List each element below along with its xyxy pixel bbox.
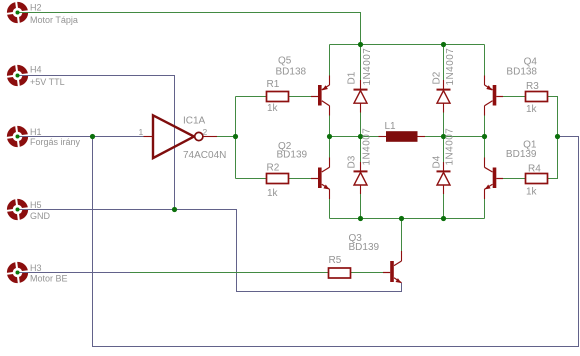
wire Q1 emitter to bottom rail: [484, 189, 486, 218]
svg-text:L1: L1: [385, 121, 397, 132]
wire to R1 left: [236, 96, 267, 98]
pin 2 of IC1A: [203, 136, 217, 138]
svg-text:Forgás irány: Forgás irány: [30, 137, 81, 147]
transistor Q3 BD139 NPN: [383, 261, 402, 283]
pad center H3: [16, 271, 20, 275]
wire Q5 emitter drop: [329, 45, 331, 86]
wire net Motor Tapja: H2 to top rail: [18, 13, 361, 45]
resistor R4: [526, 174, 548, 184]
wire Q4 emitter drop: [484, 45, 486, 86]
wire net +5V TTL: H4 right then down to GND line: [18, 76, 175, 210]
diode D4 1N4007: [437, 171, 451, 185]
svg-text:D4: D4: [432, 155, 443, 168]
junction node at H1 branch: [90, 134, 95, 139]
svg-text:BD138: BD138: [276, 67, 307, 78]
svg-text:R4: R4: [528, 164, 541, 175]
svg-text:1k: 1k: [267, 103, 279, 114]
pin 1 of IC1A: [144, 136, 154, 138]
pin stubs Q4: [484, 76, 486, 116]
wire Q5 collector to mid rail: [329, 106, 331, 137]
junction node mid rail Q5/Q2: [327, 134, 332, 139]
resistor R2: [267, 174, 289, 184]
resistor R3: [526, 92, 548, 102]
wire D4 bottom to bottom rail: [443, 185, 445, 219]
wire D3 bottom to bottom rail: [360, 185, 362, 219]
diode D3 1N4007: [354, 171, 368, 185]
pad center H4: [16, 74, 20, 78]
svg-text:H1: H1: [30, 127, 42, 137]
svg-text:H2: H2: [30, 3, 42, 13]
wire Forgas irany branch: down, along bottom, up right side to R3/R4: [93, 137, 579, 347]
junction node at +5V/GND: [172, 207, 177, 212]
svg-text:IC1A: IC1A: [183, 116, 206, 127]
pin stub Q3 collector: [401, 251, 403, 261]
wire R4 left to Q1 base: [503, 178, 526, 180]
wire Q1 collector to mid rail: [484, 137, 486, 168]
connector pad H5: [4, 196, 30, 222]
svg-text:1N4007: 1N4007: [445, 48, 456, 86]
svg-text:D3: D3: [347, 155, 358, 168]
wire R3 left to Q4 base: [503, 96, 526, 98]
wire D1 bottom to mid rail: [360, 103, 362, 137]
svg-text:R2: R2: [267, 163, 280, 174]
transistor Q2 BD139 NPN: [311, 167, 330, 189]
transistor Q5 BD138 PNP: [311, 85, 330, 106]
wire inverter output to R1/R2: [217, 136, 236, 138]
svg-text:R5: R5: [329, 255, 342, 266]
wire top rail: [330, 44, 485, 46]
wire R3/R4 node to right rail: [558, 136, 579, 138]
diode D1 1N4007: [354, 90, 368, 104]
wire bottom rail: [330, 218, 485, 220]
junction node R3/R4: [555, 134, 560, 139]
svg-text:GND: GND: [30, 211, 51, 221]
wire R1 right to Q5 base: [289, 96, 312, 98]
pin stubs D2: [443, 80, 445, 113]
junction node bottom rail D4: [441, 216, 446, 221]
wire to R2 left: [236, 178, 267, 180]
pin stubs D3: [360, 162, 362, 194]
junction node mid rail D1/D3: [358, 134, 363, 139]
wire R5 right to Q3 base: [351, 272, 384, 274]
wire Q2 collector to mid rail: [329, 137, 331, 168]
svg-text:Q5: Q5: [278, 56, 292, 67]
pin stubs D4: [443, 162, 445, 194]
svg-text:+5V TTL: +5V TTL: [30, 77, 65, 87]
svg-text:BD139: BD139: [506, 149, 537, 160]
wire Q2 emitter to bottom rail: [329, 189, 331, 218]
junction node mid rail Q4/Q1: [482, 134, 487, 139]
wire net Forgas irany: H1 to inverter input: [18, 136, 145, 138]
wire D1 top: [360, 45, 362, 90]
inductor L1 motor: [386, 131, 418, 142]
wire mid rail: [330, 136, 485, 138]
svg-text:BD139: BD139: [277, 150, 308, 161]
wire D2 bottom to mid rail: [443, 103, 445, 137]
junction node bottom rail Q3: [399, 216, 404, 221]
wire D4 top: [443, 137, 445, 171]
svg-text:1: 1: [139, 127, 144, 137]
svg-text:1N4007: 1N4007: [362, 48, 373, 86]
junction node top rail D2: [441, 42, 446, 47]
wire D3 top: [360, 137, 362, 171]
junction node mid rail D2/D4: [441, 134, 446, 139]
svg-text:H3: H3: [30, 263, 42, 273]
pin stubs Q1: [484, 158, 486, 200]
junction node top rail D1: [358, 42, 363, 47]
svg-text:BD139: BD139: [349, 242, 380, 253]
wire R3/R4 right vertical: [548, 97, 558, 179]
svg-text:D1: D1: [347, 71, 358, 84]
connector pad H3: [4, 259, 30, 285]
svg-text:1k: 1k: [526, 104, 538, 115]
svg-text:Motor Tápja: Motor Tápja: [30, 15, 78, 25]
svg-text:BD138: BD138: [506, 67, 537, 78]
svg-text:D2: D2: [432, 71, 443, 84]
wire Q4 collector to mid rail: [484, 106, 486, 137]
pin stubs L1: [379, 136, 426, 138]
svg-text:R3: R3: [526, 81, 539, 92]
junction node bottom rail D3: [358, 216, 363, 221]
wire net Motor BE: H3 to R5 (navy part): [18, 272, 131, 274]
pin stubs D1: [360, 80, 362, 113]
wire net Motor BE: green part to R5: [130, 272, 329, 274]
svg-text:1N4007: 1N4007: [445, 128, 456, 166]
svg-text:R1: R1: [267, 79, 280, 90]
wire R2 right to Q2 base: [289, 178, 312, 180]
pin stubs Q2: [329, 158, 331, 200]
wire net GND: H5 to corner, down and right to Q3 emitter: [18, 210, 402, 292]
svg-text:H5: H5: [30, 200, 42, 210]
pad center H2: [16, 11, 20, 15]
pin stubs Q5: [329, 76, 331, 116]
connector pad H1: [4, 123, 30, 149]
svg-text:Motor BE: Motor BE: [30, 274, 68, 284]
transistor Q1 BD139 NPN (mirrored): [485, 167, 504, 189]
svg-text:1N4007: 1N4007: [362, 128, 373, 166]
transistor Q4 BD138 PNP (mirrored): [485, 85, 504, 106]
svg-text:2: 2: [203, 127, 208, 137]
resistor R1: [267, 92, 289, 102]
svg-text:1k: 1k: [526, 187, 538, 198]
connector pad H4: [4, 62, 30, 88]
wire R1/R2 left vertical: [235, 97, 237, 179]
pad center H5: [16, 208, 20, 212]
junction node inverter output: [233, 134, 238, 139]
inverter gate IC1A (74AC04N): [153, 115, 203, 158]
pad center H1: [16, 135, 20, 139]
svg-text:1k: 1k: [267, 188, 279, 199]
wire Q3 collector to bottom rail: [401, 219, 403, 262]
svg-text:74AC04N: 74AC04N: [183, 150, 226, 161]
svg-text:H4: H4: [30, 65, 42, 75]
wire D2 top: [443, 45, 445, 90]
connector pad H2: [4, 0, 30, 26]
diode D2 1N4007: [437, 90, 451, 104]
resistor R5: [329, 268, 351, 278]
